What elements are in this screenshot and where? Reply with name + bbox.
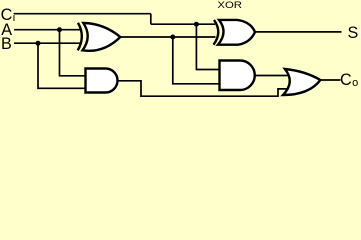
wire Ci vertical step down (150, 14, 152, 25)
wire A branch down to AND1 upper input (60, 30, 87, 76)
junction dot on B line (36, 41, 41, 46)
wire AND1 output down and along bottom to OR lower input (116, 81, 289, 96)
and gate AND1 (A and B) (86, 69, 118, 93)
wire XOR2 output to S (254, 31, 342, 33)
xor gate XOR1 (A xor B) (78, 23, 121, 51)
xor gate XOR2 (sum) (214, 20, 256, 45)
wire Ci second segment to XOR2 upper input (151, 23, 215, 25)
wire B input to XOR1 (14, 42, 81, 44)
or gate OR1 (carry out) (283, 69, 320, 95)
wire Ci branch down to AND2 upper input (196, 24, 220, 69)
junction dot on XOR1 output line (170, 35, 175, 40)
and gate AND2 (Ci and (A xor B)) (220, 61, 255, 91)
wire OR output to Co (320, 79, 341, 81)
junction dot on A line (57, 27, 62, 32)
wire AND2 output to OR upper input (253, 75, 290, 77)
wire XOR1 output to XOR2 lower input (118, 36, 216, 38)
junction dot on Ci segment (194, 22, 199, 27)
svg-text:S: S (348, 24, 359, 42)
svg-text:XOR: XOR (217, 0, 242, 10)
wire Ci top horizontal segment (14, 13, 151, 15)
svg-text:B: B (1, 35, 12, 53)
wire branch down to AND2 lower input (173, 37, 220, 84)
wire A input to XOR1 (14, 29, 81, 31)
wire B branch down to AND1 lower input (38, 43, 87, 88)
